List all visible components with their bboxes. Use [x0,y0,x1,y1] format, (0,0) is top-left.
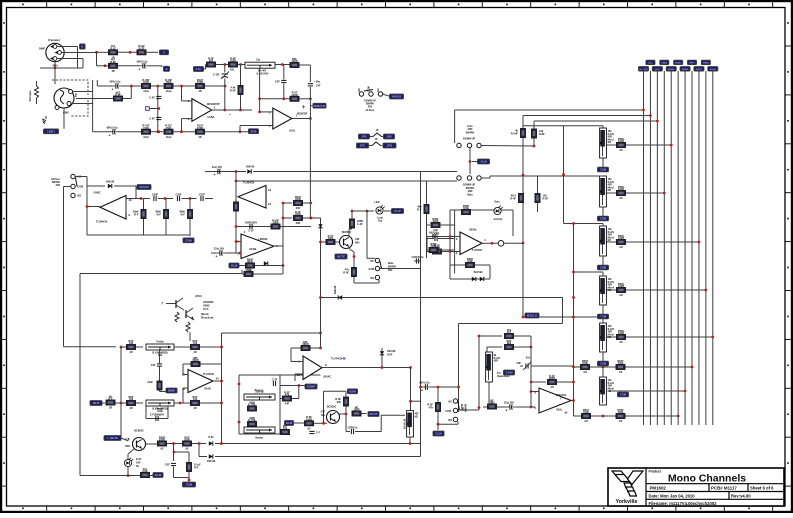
svg-text:BSW: BSW [349,389,356,393]
row y226 [235,217,313,233]
svg-text:TL074CN: TL074CN [203,373,214,376]
svg-text:R4D: R4D [125,445,130,448]
svg-text:C4F: C4F [151,364,156,367]
svg-text:+: + [302,105,306,111]
svg-text:TL064CN: TL064CN [96,220,107,224]
row y131 [93,124,228,139]
svg-text:JPD: JPD [387,144,392,148]
wire rows 171-181 [205,166,421,254]
svg-text:2nd Input: 2nd Input [29,90,32,101]
svg-text:1R: 1R [193,406,196,410]
svg-text:+: + [109,133,111,137]
svg-text:J4MF: J4MF [39,48,46,51]
solo switch [455,110,534,197]
svg-text:68V| 0.0u: 68V| 0.0u [137,60,148,63]
treble cap [151,350,162,381]
bass cap [146,406,168,421]
svg-text:D-0F: D-0F [208,436,214,439]
svg-text:NC: NC [371,260,375,263]
svg-text:[Function]: [Function] [201,317,213,320]
top right vertical resistors [510,116,548,318]
svg-text:JPC: JPC [360,144,365,148]
svg-text:+: + [421,389,423,393]
svg-text:1/2: 1/2 [619,245,623,249]
svg-text:Bass: Bass [157,407,164,411]
svg-text:BC850C: BC850C [134,430,144,433]
svg-text:C30: C30 [433,228,438,232]
svg-text:COM: COM [369,86,371,91]
var cap C8F [516,357,573,371]
svg-text:+: + [506,409,508,413]
svg-text:JPA: JPA [361,135,366,139]
row y86 [97,78,226,93]
bus connection wires [455,109,715,418]
svg-text:Clip: Clip [378,220,383,223]
svg-text:N: N [81,45,83,49]
mid caps column [146,86,162,133]
svg-text:PM1602: PM1602 [650,486,667,491]
svg-text:1/2: 1/2 [619,340,623,344]
minus mark [229,112,231,118]
wire y323 corner [459,298,563,413]
svg-text:B.LIN 2005: B.LIN 2005 [257,74,269,76]
svg-text:1N4148: 1N4148 [207,460,216,463]
send row wires [594,367,692,416]
svg-text:COM: COM [600,363,606,366]
svg-text:COM: COM [368,268,374,271]
vol rot text [461,407,464,411]
svg-text:1/2: 1/2 [619,293,623,297]
svg-text:(Female): (Female) [48,38,60,42]
mute switch 2 [445,399,466,422]
svg-text:C-10F: C-10F [213,74,220,77]
svg-text:R-54F: R-54F [511,132,519,136]
svg-text:+: + [564,411,567,417]
svg-text:BC850C: BC850C [327,406,337,409]
svg-text:+: + [214,173,216,177]
svg-text:C-0F: C-0F [433,233,439,236]
x410 vertical [409,368,420,411]
svg-text:BSWP: BSWP [307,385,316,389]
svg-text:+: + [139,67,141,71]
svg-text:CLIP: CLIP [394,209,401,213]
op-amp U24AL [211,195,312,259]
svg-text:BAV199: BAV199 [474,271,484,274]
svg-text:R-8F: R-8F [539,132,545,136]
svg-text:XXL: XXL [526,357,531,360]
svg-text:100P|100V: 100P|100V [245,221,258,224]
op-amp U1BA [182,86,253,132]
svg-text:MON2: MON2 [675,63,682,65]
svg-text:1R: 1R [129,350,132,354]
svg-text:EFF1: EFF1 [689,63,695,65]
svg-text:R-F: R-F [134,213,139,217]
svg-text:20F: 20F [296,206,301,210]
svg-text:47k: 47k [429,406,434,410]
connector J4 XLR female [39,38,65,68]
cal trim row [194,56,311,110]
op-amp U3AL [531,388,575,417]
treble row [120,339,223,357]
svg-text:1N4148: 1N4148 [246,166,255,169]
svg-text:1_MUTE: 1_MUTE [107,436,118,440]
svg-text:Activity: Activity [493,218,503,221]
bass row [90,347,222,436]
svg-text:MUTE: MUTE [337,255,345,259]
svg-text:Rev:v4.00: Rev:v4.00 [731,493,751,498]
svg-text:Quandnder: Quandnder [497,375,510,378]
svg-text:LINE1: LINE1 [47,129,55,133]
svg-text:68H: 68H [355,242,360,245]
svg-text:PREOUT: PREOUT [314,104,326,108]
svg-text:PRE2: PRE2 [703,63,709,65]
svg-text:68V| 0.0u: 68V| 0.0u [110,81,121,84]
svg-text:COM: COM [620,394,626,397]
svg-text:R-5F: R-5F [543,197,549,201]
row y98 [76,86,131,101]
Yorkville logo [612,471,643,505]
svg-text:C-0F: C-0F [149,97,155,100]
svg-text:B: B [166,67,168,71]
svg-text:MON1: MON1 [668,69,675,71]
svg-text:HI-Pass: HI-Pass [366,109,375,112]
svg-text:4IL: 4IL [136,465,140,468]
svg-text:MON3: MON3 [682,69,689,71]
svg-text:NO: NO [370,277,374,280]
wire y317 [522,313,574,318]
svg-text:EFF2: EFF2 [696,69,702,71]
row y382 [531,374,575,389]
svg-text:Bassup: Bassup [255,389,264,392]
mid resistor [147,381,177,393]
svg-text:Bala: Bala [467,194,473,197]
channel send faders [600,128,615,405]
svg-text:HPASS: HPASS [139,185,149,189]
svg-text:C8F|10u: C8F|10u [348,426,358,429]
eq box resistor [417,204,429,213]
svg-text:TIP: TIP [75,93,78,97]
svg-text:R-F: R-F [157,213,162,217]
svg-text:BMID: BMID [168,389,175,393]
svg-text:M33078P: M33078P [297,112,308,115]
svg-text:U24AL: U24AL [249,248,257,251]
svg-text:U3AD: U3AD [204,388,211,391]
svg-text:SND2: SND2 [661,63,668,65]
svg-text:R-F: R-F [194,466,199,470]
svg-text:Product: Product [649,470,663,474]
svg-text:NO: NO [448,419,452,422]
svg-text:LM4562: LM4562 [258,238,268,241]
mute switch [368,258,420,280]
svg-text:Cal: Cal [256,58,260,62]
svg-text:68V| 0.0u: 68V| 0.0u [107,126,118,129]
svg-text:GAIN: GAIN [506,371,513,375]
svg-text:1Cpl: 1Cpl [166,89,172,93]
svg-text:+: + [342,356,346,363]
svg-text:TL064CN: TL064CN [243,181,254,185]
vertical x320 [311,218,323,349]
op-amp U3AD [182,356,223,403]
svg-text:C-2F: C-2F [272,378,278,381]
svg-text:14: 14 [216,377,220,381]
svg-text:T-072CP: T-072CP [472,248,483,252]
svg-text:Filename: m1117V4.00schsch2002: Filename: m1117V4.00schsch2002 [649,501,718,506]
gain stage parts [427,201,523,282]
svg-text:BOUT: BOUT [370,412,378,416]
treble-out vertical [220,332,322,445]
gain pot [486,352,515,382]
svg-text:R-3F: R-3F [230,89,236,93]
transistor Q-mute [321,210,380,283]
svg-text:2R2: 2R2 [56,184,61,187]
clip LED [352,201,404,258]
svg-text:JP: JP [376,129,379,132]
fader send resistors [616,137,625,344]
svg-text:XXL: XXL [230,70,235,72]
svg-text:GLM: GLM [435,432,442,436]
vol fader [405,411,420,444]
op-amp U20AL [456,228,487,256]
wire y297 [321,285,575,300]
svg-text:Sheet 6 of 6: Sheet 6 of 6 [750,486,774,491]
svg-text:TL074CN: TL074CN [331,357,342,361]
svg-text:SUB: SUB [251,129,257,133]
svg-text:U1BA: U1BA [208,116,215,119]
svg-text:COM: COM [600,169,606,172]
svg-text:R-0F: R-0F [343,271,349,275]
svg-text:R-F: R-F [417,208,422,212]
svg-text:44F: 44F [285,402,290,406]
svg-text:BLM: BLM [231,264,238,268]
svg-text:C37F: C37F [199,193,206,196]
svg-text:7: 7 [161,302,163,306]
svg-text:20R: 20R [296,221,301,225]
svg-text:Yorkville: Yorkville [615,499,637,505]
svg-text:HPASS: HPASS [392,95,402,99]
svg-text:U30AC: U30AC [323,376,331,379]
send row resistors y416 [581,408,625,423]
svg-text:1/2: 1/2 [619,196,623,200]
svg-text:13: 13 [268,188,272,192]
connector J5 TRS jack [52,80,88,116]
gain pot rows [479,328,531,352]
svg-text:1Cpl: 1Cpl [143,89,149,93]
svg-text:PCB# M1117: PCB# M1117 [711,486,737,491]
svg-text:2R2: 2R2 [388,269,393,272]
svg-text:+ 68u: + 68u [314,81,321,84]
bassup sweep block [238,375,321,440]
svg-text:+: + [216,255,218,259]
hipass filter caps [87,193,213,242]
svg-text:U20AL: U20AL [469,228,478,232]
svg-text:JPB: JPB [386,135,391,139]
bus vertical wires [644,71,713,425]
hipass panel switch [359,86,404,112]
svg-text:C8F: C8F [321,412,326,414]
svg-text:C4F: C4F [275,81,280,84]
svg-text:1/2: 1/2 [619,148,623,152]
svg-text:22u| 16V: 22u| 16V [504,402,514,405]
svg-text:22u| 16V: 22u| 16V [212,166,222,169]
svg-text:10k B.LIN: 10k B.LIN [405,418,407,429]
svg-text:(VCC): (VCC) [195,295,202,298]
hipass switch SW2 [51,174,116,346]
svg-text:NC: NC [449,401,453,404]
bus net labels [639,60,718,71]
svg-text:A: A [163,50,165,54]
svg-text:20k: 20k [158,353,163,357]
svg-text:1N4148: 1N4148 [334,285,337,294]
title block box [608,468,784,506]
svg-text:COM: COM [78,186,84,189]
svg-text:LED: LED [375,201,380,204]
vol row [459,398,536,412]
mute LED branch [80,449,163,478]
svg-text:MC33078P: MC33078P [207,103,220,106]
svg-text:C-0F: C-0F [149,118,155,121]
svg-text:1C%: 1C% [203,308,209,311]
op-amp U5NC [86,181,151,236]
svg-text:C0F: C0F [165,464,170,467]
svg-text:1/2: 1/2 [584,419,588,423]
svg-text:Treble: Treble [156,339,164,343]
op-amp U1AL [228,65,326,219]
XLR pin wires [40,47,97,85]
pad resistor [29,81,39,104]
fader bottom labels [598,158,629,397]
net label input [44,129,59,134]
svg-text:Date: Mon Jan 04, 2010: Date: Mon Jan 04, 2010 [649,493,696,498]
svg-text:U3AL: U3AL [556,409,563,412]
svg-text:NO: NO [78,195,82,198]
svg-text:BLM: BLM [155,473,162,477]
svg-text:1R: 1R [111,69,114,73]
svg-text:COM: COM [445,410,451,413]
input resistors row1 [95,44,168,59]
svg-text:CAL: CAL [196,67,202,71]
svg-text:1R: 1R [129,406,132,410]
net label IN1 [80,44,86,49]
eq feedback box [412,172,455,444]
svg-text:NO: NO [378,88,380,92]
op-amp U30AC [291,340,412,381]
svg-text:R-4F: R-4F [510,197,516,201]
svg-text:1R: 1R [198,89,201,93]
verticals mid right [478,335,533,408]
svg-text:SOLO: SOLO [710,69,716,71]
input resistors row2 [97,52,170,73]
ground sym input [42,116,46,124]
svg-text:C34F: C34F [152,193,159,196]
svg-text:BLM: BLM [93,401,100,405]
svg-text:U1AL: U1AL [289,130,296,133]
svg-text:C-F|390|60V: C-F|390|60V [150,413,165,416]
svg-text:1Cpl: 1Cpl [166,135,172,139]
solo feed wires [421,172,564,182]
jack wires [64,80,97,132]
send bus feed verticals [523,126,604,418]
svg-text:1N4148: 1N4148 [106,181,115,184]
post fader cluster [280,384,405,435]
svg-text:C35F: C35F [175,193,182,196]
svg-text:C-4F: C-4F [357,222,363,226]
svg-text:COM: COM [600,218,606,221]
svg-text:MSOLO: MSOLO [527,314,538,318]
svg-text:BC850C: BC850C [342,231,352,234]
svg-text:COM: COM [185,238,192,242]
title block text [649,470,775,506]
svg-text:Sweep: Sweep [255,437,263,440]
svg-text:1R: 1R [109,406,112,410]
bottom mute row [104,430,421,464]
svg-text:C8F: C8F [516,362,521,365]
svg-text:COM: COM [186,483,193,487]
svg-text:20uF: 20uF [147,381,153,384]
transistor pair U2NC [161,295,214,341]
u24 lower parts [229,246,284,277]
svg-text:Vol: Vol [461,407,464,411]
svg-text:DOWN UP: DOWN UP [463,138,475,141]
svg-text:22u| 16V: 22u| 16V [214,248,224,251]
svg-text:AL_STR: AL_STR [639,68,648,71]
svg-text:1/2: 1/2 [583,370,587,374]
svg-text:Gain: Gain [494,201,500,204]
svg-text:1Cpl: 1Cpl [143,135,149,139]
svg-text:1R: 1R [198,135,201,139]
send row resistors y367 [580,359,625,374]
svg-text:C4F: C4F [316,85,321,88]
svg-text:COM: COM [600,267,606,270]
svg-text:C-F: C-F [316,432,321,435]
svg-text:43R: 43R [494,360,499,363]
op-amp U5D [233,181,271,212]
svg-text:D-8F: D-8F [387,354,393,357]
svg-text:1/2: 1/2 [550,385,554,389]
svg-text:C4F: C4F [125,438,130,441]
jumper links [357,129,397,148]
svg-text:JP: JP [375,138,378,141]
svg-text:1R: 1R [193,350,196,354]
svg-text:1/2: 1/2 [619,370,623,374]
svg-text:1/2: 1/2 [619,419,623,423]
svg-text:68u: 68u [321,415,326,417]
svg-text:68V| 10u: 68V| 10u [419,382,430,385]
svg-text:ALM: ALM [480,160,487,164]
svg-text:U5NC: U5NC [93,191,100,195]
svg-text:Mono Channels: Mono Channels [668,473,746,485]
svg-text:NO: NO [359,88,361,92]
svg-text:C31F|0.0u: C31F|0.0u [412,256,424,259]
row y387 [419,382,460,393]
svg-text:8W4PA: 8W4PA [466,132,475,135]
wire y273 [80,274,242,476]
mute RC branch [165,444,201,487]
svg-text:R-F: R-F [181,213,186,217]
svg-text:22k: 22k [337,400,342,404]
svg-text:+: + [112,88,114,92]
svg-text:C-1F: C-1F [248,230,254,233]
svg-text:12: 12 [268,202,272,206]
vol mute resistor [427,386,458,436]
